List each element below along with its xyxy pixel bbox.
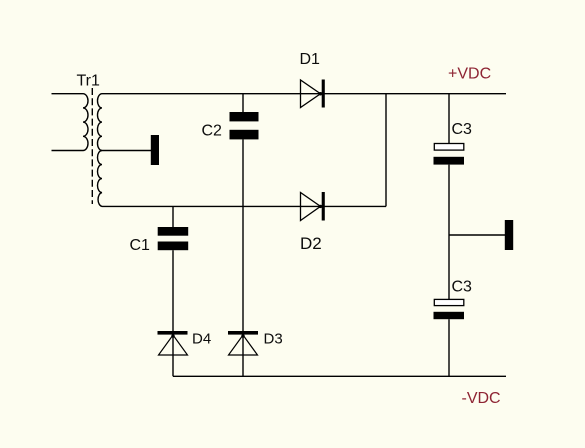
wire -VDC bottom rail (173, 375, 506, 377)
svg-text:D4: D4 (192, 331, 211, 348)
svg-text:C3: C3 (452, 121, 473, 138)
transformer Tr1 core (91, 88, 93, 204)
svg-text:D3: D3 (264, 331, 283, 348)
wire C3 top lead (448, 94, 450, 144)
svg-text:C1: C1 (130, 237, 151, 254)
capacitor C3 lower (434, 299, 465, 319)
diode D4 (158, 331, 188, 355)
wire C1 bottom through D4 (172, 250, 174, 376)
wire C2 bottom through D3 (242, 139, 244, 376)
svg-text:C3: C3 (452, 279, 473, 296)
svg-text:D2: D2 (300, 234, 322, 253)
wire secondary bottom rail (102, 205, 386, 207)
svg-text:C2: C2 (202, 123, 223, 140)
diode D1 (301, 80, 325, 108)
svg-text:-VDC: -VDC (462, 390, 501, 407)
svg-text:+VDC: +VDC (448, 66, 491, 83)
wire D2 output riser (385, 94, 387, 207)
svg-text:Tr1: Tr1 (77, 73, 101, 90)
wire bottom-left primary lead (52, 150, 84, 152)
wire +VDC top rail (102, 93, 506, 95)
wire C1 top (172, 206, 174, 227)
svg-text:D1: D1 (300, 51, 321, 68)
terminal bar mid right (505, 220, 513, 250)
diode D3 (228, 331, 258, 355)
diode D2 (301, 192, 325, 221)
transformer Tr1 primary winding (83, 94, 88, 151)
capacitor C1 (158, 227, 189, 250)
wire C3 bottom lead (448, 319, 450, 376)
transformer Tr1 secondary winding (97, 94, 102, 207)
wire top-left primary lead (52, 93, 84, 95)
wire C3 middle (448, 165, 450, 300)
capacitor C3 upper (434, 144, 465, 165)
wire mid terminal (449, 234, 505, 236)
wire center tap (100, 150, 151, 152)
wire C2 top (242, 94, 244, 113)
capacitor C2 (230, 112, 259, 139)
terminal bar center tap (151, 135, 159, 165)
